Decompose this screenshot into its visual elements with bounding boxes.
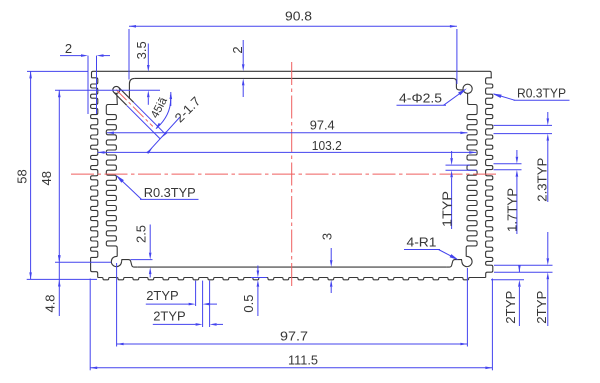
svg-text:R0.3TYP: R0.3TYP: [144, 185, 196, 200]
cavity top-left corner face: [129, 78, 134, 98]
angle 45 vertical ext: [170, 92, 173, 106]
dim 2TYP right ext: [491, 265, 553, 280]
svg-text:103.2: 103.2: [312, 138, 342, 153]
dim 58: [14, 71, 32, 279]
leader 4-R1: [404, 235, 459, 260]
dim 1.7TYP: [505, 150, 520, 234]
top wall outer line: [92, 71, 492, 78]
dim 2.3TYP ext: [494, 125, 553, 133]
dim 3.5: [134, 41, 150, 105]
bottom plate inner surface: [137, 266, 446, 268]
right wall inner ribs: [466, 93, 477, 256]
svg-text:3: 3: [320, 233, 335, 240]
dim 103.2: [98, 138, 477, 154]
dim 0.5: [241, 266, 267, 317]
leader 4-phi2.5: [397, 88, 467, 105]
angle 45 arc: [156, 95, 171, 129]
dim 2-1.7 leader: [147, 94, 204, 154]
corner slot cap circle: [113, 86, 120, 93]
svg-text:58: 58: [14, 169, 29, 183]
dim 2TYP bottom ext: [196, 281, 210, 327]
svg-text:97.7: 97.7: [280, 329, 308, 344]
svg-text:2.3TYP: 2.3TYP: [535, 158, 550, 202]
right bottom hook R1: [462, 256, 472, 266]
dim 97.7 ext: [117, 263, 468, 347]
dim 2.5: [134, 225, 152, 278]
cavity top-right corner step: [453, 78, 463, 90]
svg-text:2: 2: [65, 41, 72, 56]
svg-text:1.7TYP: 1.7TYP: [505, 188, 520, 232]
svg-text:111.5: 111.5: [288, 353, 318, 368]
dim 2 top wall: [230, 40, 245, 97]
right wall outer fins: [486, 78, 493, 278]
svg-text:R0.3TYP: R0.3TYP: [517, 85, 566, 100]
svg-text:90.8: 90.8: [285, 9, 312, 24]
bottom serrated surface: [98, 278, 486, 280]
dim 2 fin depth ext: [88, 56, 97, 114]
dim 4.8: [43, 255, 61, 316]
svg-text:97.4: 97.4: [310, 117, 335, 132]
dim 3.5 ext: [55, 89, 160, 91]
dim 111.5: [90, 353, 492, 370]
leader R0.3TYP right: [492, 85, 570, 100]
svg-text:1TYP: 1TYP: [440, 191, 455, 227]
dim 1.7TYP ext: [494, 164, 522, 170]
right bottom step: [446, 260, 462, 268]
vertical centerline: [291, 62, 293, 288]
corner slot lower edge: [114, 92, 127, 105]
dim 58 ext: [27, 71, 97, 279]
corner slot lower wall to inner face: [107, 93, 117, 104]
dim 90.8: [129, 9, 457, 28]
dim 3: [320, 233, 335, 293]
dim 97.7: [117, 329, 468, 346]
left bottom step: [122, 260, 138, 268]
svg-text:2: 2: [230, 46, 245, 53]
svg-text:2TYP: 2TYP: [503, 291, 518, 324]
svg-text:2TYP: 2TYP: [146, 288, 178, 303]
step top ext line: [131, 259, 153, 261]
svg-text:48: 48: [39, 171, 54, 185]
dim 48 ext: [55, 261, 111, 263]
svg-text:2.5: 2.5: [134, 225, 149, 243]
corner slot upper edge: [119, 88, 134, 103]
dim 97.4: [107, 117, 468, 134]
dim 1TYP ext: [446, 165, 478, 170]
left bottom hook R1: [111, 256, 121, 266]
left wall outer fins: [91, 78, 98, 278]
screw hole 4-phi2.5: [463, 84, 472, 93]
dim 2TYP bottom 1: [146, 288, 217, 305]
top wall inner line: [135, 77, 454, 79]
svg-text:0.5: 0.5: [241, 295, 256, 313]
dim 111.5 ext: [90, 279, 492, 371]
dim 2TYP right 1: [503, 265, 521, 326]
slot 45deg centerline: [116, 90, 153, 127]
svg-text:2TYP: 2TYP: [153, 309, 185, 324]
leader R0.3TYP left: [116, 175, 199, 200]
svg-text:4-R1: 4-R1: [407, 235, 437, 250]
svg-text:2TYP: 2TYP: [534, 291, 549, 324]
left wall inner ribs: [106, 105, 117, 257]
angle 45 label: [149, 95, 170, 120]
horizontal centerline: [71, 173, 497, 175]
slot edge ext lines: [127, 102, 164, 139]
dim 2TYP bottom 2: [153, 309, 223, 326]
svg-text:3.5: 3.5: [134, 41, 149, 59]
dim 48: [39, 90, 61, 262]
dim 90.8 extension lines: [129, 29, 457, 84]
dim 2TYP right 2: [534, 232, 549, 326]
dim 1TYP: [440, 151, 455, 229]
svg-text:4-Φ2.5: 4-Φ2.5: [399, 91, 442, 106]
dim 2.3TYP: [535, 112, 550, 202]
svg-text:4.8: 4.8: [43, 294, 58, 312]
dim 2 fin depth: [60, 41, 110, 57]
